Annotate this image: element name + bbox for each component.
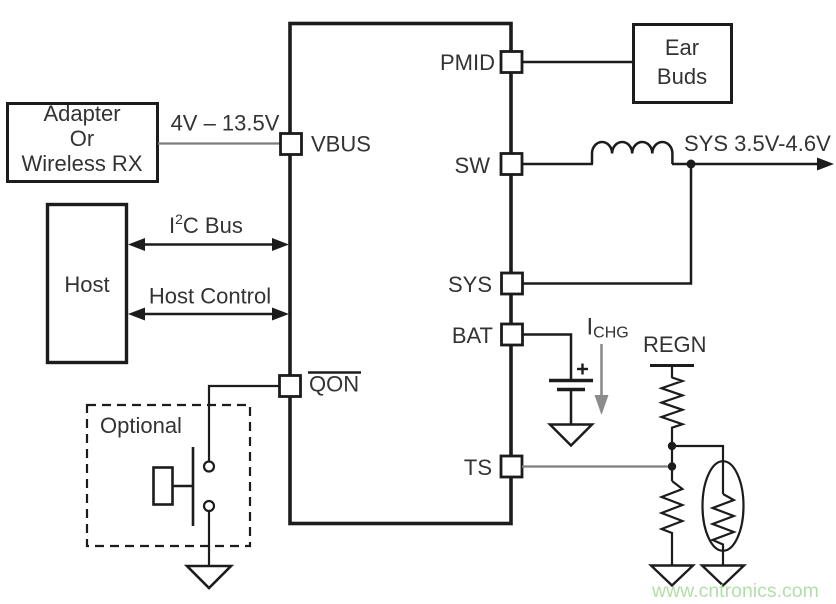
svg-text:TS: TS (464, 455, 492, 480)
svg-text:SYS: SYS (448, 272, 492, 297)
wire BAT to battery (523, 335, 571, 380)
pin VBUS (281, 132, 371, 157)
label ICHG (587, 314, 629, 342)
pushbutton switch S1 (154, 447, 215, 526)
pin BAT (452, 323, 523, 348)
current arrow ICHG (595, 344, 609, 415)
svg-text:Ear: Ear (665, 35, 699, 60)
pin SW (455, 153, 522, 178)
svg-text:4V – 13.5V: 4V – 13.5V (171, 111, 280, 136)
Adapter / Wireless RX box (8, 101, 158, 182)
svg-text:SYS 3.5V-4.6V: SYS 3.5V-4.6V (684, 131, 831, 156)
svg-text:I2C Bus: I2C Bus (169, 211, 243, 238)
svg-text:BAT: BAT (452, 323, 493, 348)
wire inductor to junction and SYS output arrow (672, 158, 834, 171)
label 4V - 13.5V (171, 111, 280, 136)
label SYS 3.5V-4.6V (684, 131, 831, 156)
svg-text:Adapter: Adapter (43, 101, 120, 126)
wire battery to ground (570, 391, 573, 425)
wire adapter to VBUS (158, 142, 281, 144)
ground (battery) (550, 425, 592, 446)
node A (upper junction) (668, 442, 676, 450)
label REGN (643, 332, 707, 357)
wire PMID to Ear Buds (522, 61, 634, 64)
I2C Bus double arrow (128, 211, 289, 251)
svg-text:REGN: REGN (643, 332, 707, 357)
resistor R1 (REGN pull-up) (662, 378, 683, 447)
junction node SYS (687, 160, 696, 169)
Ear Buds box (634, 25, 732, 103)
svg-text:Or: Or (70, 126, 94, 151)
ground (thermistor) (702, 566, 744, 586)
Host Control double arrow (128, 284, 289, 321)
wire switch to ground (208, 511, 210, 566)
inductor L1 (592, 142, 672, 164)
pin SYS (448, 272, 523, 297)
wire junction down to SYS pin (523, 164, 691, 284)
svg-text:VBUS: VBUS (311, 132, 371, 157)
Optional dashed box (87, 405, 250, 546)
svg-text:Host Control: Host Control (149, 284, 271, 309)
wire QON to switch (209, 386, 280, 461)
svg-text:SW: SW (455, 153, 491, 178)
svg-text:PMID: PMID (440, 50, 495, 75)
IC U1 body (290, 24, 511, 524)
thermistor RT1 (703, 461, 744, 565)
pin QON with overline label (280, 372, 362, 397)
wire node A to thermistor (672, 446, 723, 494)
wire SW to inductor (522, 163, 593, 166)
svg-text:Buds: Buds (657, 64, 707, 89)
REGN supply rail (650, 366, 694, 379)
node B (TS junction) (668, 462, 676, 470)
svg-text:QON: QON (309, 372, 359, 397)
battery BT1 (549, 364, 593, 390)
svg-text:Wireless RX: Wireless RX (21, 151, 142, 176)
svg-text:www.cntronics.com: www.cntronics.com (651, 580, 819, 602)
svg-text:ICHG: ICHG (587, 314, 629, 342)
ground (switch) (187, 566, 231, 588)
wire TS to node B (522, 465, 668, 467)
ground (R2) (651, 566, 693, 586)
svg-text:Optional: Optional (100, 413, 182, 438)
pin TS (464, 455, 522, 480)
watermark www.cntronics.com (651, 580, 819, 602)
Host box (48, 205, 127, 363)
pin PMID (440, 50, 522, 75)
svg-text:Host: Host (64, 272, 109, 297)
resistor R2 (lower divider) (662, 481, 683, 565)
wire node A to node B (671, 446, 673, 481)
